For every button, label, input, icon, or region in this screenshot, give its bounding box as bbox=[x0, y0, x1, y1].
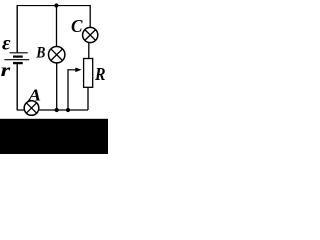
resistor R body bbox=[84, 59, 93, 88]
battery cell plate long 1 bbox=[10, 52, 28, 54]
wiper arm with arrowhead bbox=[68, 68, 82, 73]
wire right vertical upper bbox=[89, 5, 91, 28]
svg-text:C: C bbox=[71, 16, 83, 36]
wire lamp C to resistor bbox=[88, 42, 90, 58]
black bar bottom bbox=[0, 119, 108, 154]
node junction dot left bbox=[55, 108, 59, 112]
battery cell plate short thick 2 bbox=[13, 62, 23, 64]
lamp C bbox=[83, 27, 98, 42]
wire bottom horizontal bbox=[17, 109, 88, 111]
node junction dot right bbox=[66, 108, 70, 112]
lamp B bbox=[49, 47, 65, 63]
wire resistor to bottom bbox=[87, 87, 89, 110]
svg-text:r: r bbox=[1, 60, 11, 80]
wire left vertical upper bbox=[16, 5, 18, 53]
svg-text:ε: ε bbox=[2, 32, 11, 54]
wire branch B lower bbox=[56, 63, 58, 110]
wire left vertical lower bbox=[16, 64, 18, 110]
node top junction dot bbox=[54, 3, 58, 7]
wire branch B upper bbox=[56, 6, 58, 47]
battery cell plate long 2 bbox=[4, 59, 29, 61]
lamp A bbox=[24, 101, 39, 116]
svg-text:B: B bbox=[35, 45, 45, 62]
svg-text:R: R bbox=[94, 64, 105, 84]
wire wiper vertical bbox=[67, 69, 69, 110]
svg-text:A: A bbox=[28, 86, 41, 105]
battery cell plate short thick 1 bbox=[13, 55, 23, 57]
wire top horizontal bbox=[17, 5, 91, 7]
